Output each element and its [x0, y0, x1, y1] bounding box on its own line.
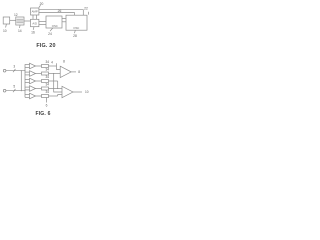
svg-text:34: 34 — [46, 60, 50, 64]
svg-text:3: 3 — [13, 64, 15, 68]
svg-text:FIG. 20: FIG. 20 — [36, 43, 55, 49]
svg-text:8: 8 — [63, 60, 65, 64]
svg-text:OSC: OSC — [73, 26, 79, 30]
svg-text:6: 6 — [46, 104, 48, 108]
svg-text:OSC: OSC — [52, 24, 58, 28]
svg-text:10: 10 — [3, 29, 7, 33]
svg-text:AMP: AMP — [32, 10, 38, 14]
svg-text:22: 22 — [84, 6, 88, 10]
svg-text:14: 14 — [18, 29, 22, 33]
svg-text:28: 28 — [73, 34, 77, 38]
svg-text:FIG. 6: FIG. 6 — [35, 111, 50, 117]
svg-text:26: 26 — [58, 9, 62, 13]
svg-text:20: 20 — [40, 2, 44, 6]
svg-text:34: 34 — [46, 67, 50, 71]
svg-text:24: 24 — [48, 32, 52, 36]
svg-text:5: 5 — [13, 84, 15, 88]
svg-text:12: 12 — [14, 13, 18, 17]
svg-text:4: 4 — [51, 61, 53, 65]
svg-text:8: 8 — [78, 70, 80, 74]
svg-text:34: 34 — [46, 82, 50, 86]
svg-text:10: 10 — [85, 90, 89, 94]
svg-text:16: 16 — [31, 30, 35, 34]
svg-text:A/D: A/D — [32, 22, 37, 26]
svg-text:34: 34 — [46, 90, 50, 94]
svg-text:34: 34 — [46, 75, 50, 79]
